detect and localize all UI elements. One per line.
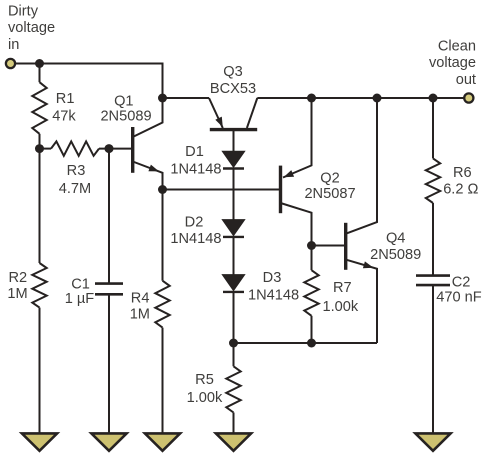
svg-text:1.00k: 1.00k (187, 390, 223, 406)
svg-text:1M: 1M (130, 307, 150, 323)
svg-text:Q4: Q4 (386, 231, 405, 247)
svg-text:1N4148: 1N4148 (248, 288, 299, 304)
svg-text:1 µF: 1 µF (65, 291, 95, 307)
svg-text:voltage: voltage (429, 55, 476, 71)
svg-text:1M: 1M (7, 286, 27, 302)
svg-text:Clean: Clean (438, 39, 476, 55)
svg-text:BCX53: BCX53 (210, 81, 256, 97)
svg-text:R3: R3 (67, 163, 86, 179)
svg-text:6.2 Ω: 6.2 Ω (443, 181, 478, 197)
svg-text:R2: R2 (9, 270, 28, 286)
svg-text:D1: D1 (185, 144, 204, 160)
svg-text:R4: R4 (131, 291, 150, 307)
svg-text:47k: 47k (52, 109, 76, 125)
svg-text:voltage: voltage (8, 20, 55, 36)
svg-text:Dirty: Dirty (8, 4, 39, 20)
svg-text:1N4148: 1N4148 (170, 231, 221, 247)
svg-text:R1: R1 (56, 91, 75, 107)
svg-text:2N5089: 2N5089 (100, 109, 151, 125)
svg-text:2N5089: 2N5089 (370, 247, 421, 263)
svg-text:Q3: Q3 (223, 64, 242, 80)
svg-text:Q2: Q2 (320, 170, 339, 186)
svg-text:R6: R6 (453, 165, 472, 181)
svg-text:C1: C1 (71, 276, 90, 292)
svg-text:D2: D2 (185, 215, 204, 231)
svg-text:R7: R7 (333, 280, 352, 296)
svg-text:1.00k: 1.00k (323, 299, 359, 315)
svg-text:in: in (8, 37, 19, 53)
svg-text:2N5087: 2N5087 (304, 186, 355, 202)
svg-text:R5: R5 (195, 372, 214, 388)
svg-text:C2: C2 (452, 275, 471, 291)
svg-text:1N4148: 1N4148 (170, 161, 221, 177)
svg-text:470 nF: 470 nF (436, 290, 482, 306)
svg-text:4.7M: 4.7M (59, 181, 91, 197)
svg-text:Q1: Q1 (114, 93, 133, 109)
svg-text:out: out (456, 72, 476, 88)
svg-text:D3: D3 (263, 270, 282, 286)
